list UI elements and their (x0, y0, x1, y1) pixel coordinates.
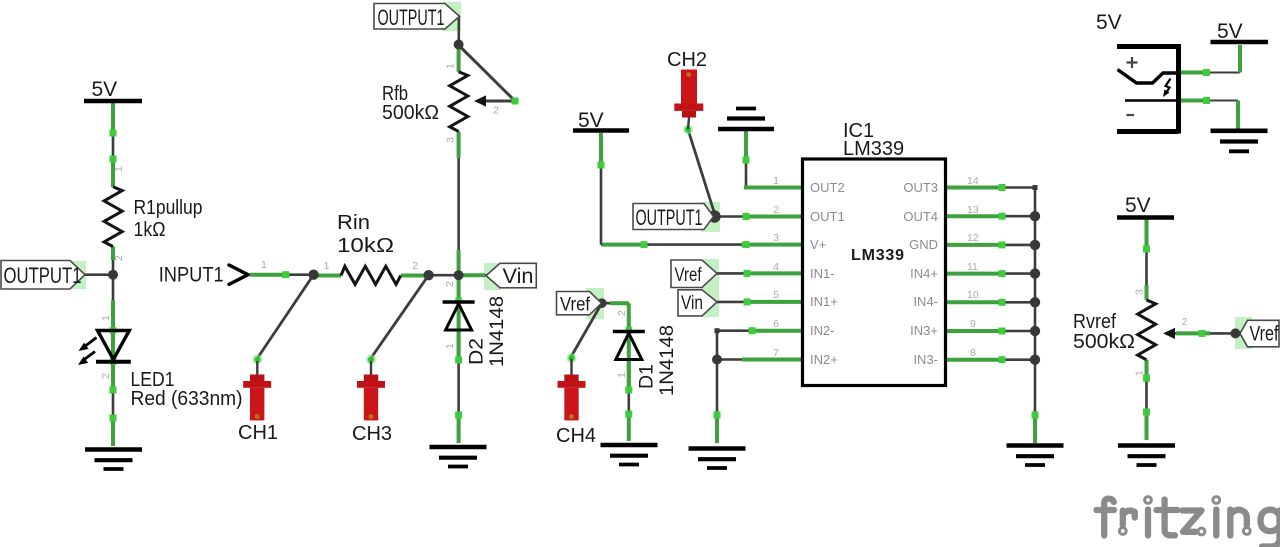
svg-text:OUT4: OUT4 (903, 209, 938, 224)
svg-text:1: 1 (261, 259, 267, 271)
svg-text:CH1: CH1 (238, 422, 278, 444)
svg-text:1kΩ: 1kΩ (134, 219, 166, 241)
svg-text:IN2+: IN2+ (810, 352, 838, 367)
svg-text:13: 13 (967, 204, 979, 216)
svg-text:1: 1 (1134, 370, 1146, 376)
svg-text:Rvref: Rvref (1073, 311, 1116, 333)
svg-text:D2: D2 (467, 338, 488, 365)
svg-text:1: 1 (113, 166, 125, 172)
svg-text:1: 1 (324, 260, 330, 272)
svg-text:GND: GND (909, 237, 938, 252)
svg-text:2: 2 (444, 281, 456, 287)
svg-text:8: 8 (970, 347, 976, 359)
svg-text:IN3-: IN3- (913, 352, 938, 367)
svg-text:IN3+: IN3+ (910, 323, 938, 338)
svg-text:Vin: Vin (681, 293, 703, 314)
svg-text:R1pullup: R1pullup (134, 197, 203, 219)
svg-text:5: 5 (773, 289, 779, 301)
svg-text:OUTPUT1: OUTPUT1 (378, 5, 445, 30)
svg-text:OUTPUT1: OUTPUT1 (636, 205, 703, 230)
svg-text:5V: 5V (1125, 194, 1151, 217)
svg-text:2: 2 (493, 105, 499, 117)
svg-text:2: 2 (616, 310, 628, 316)
svg-text:IN4-: IN4- (913, 294, 938, 309)
svg-text:D1: D1 (637, 364, 658, 389)
svg-text:CH4: CH4 (556, 425, 596, 447)
svg-text:1: 1 (773, 175, 779, 187)
svg-text:1N4148: 1N4148 (487, 296, 508, 367)
svg-text:5V: 5V (578, 109, 604, 132)
svg-text:7: 7 (773, 347, 779, 359)
svg-text:5V: 5V (1096, 11, 1122, 34)
svg-text:1: 1 (616, 372, 628, 378)
svg-text:LM339: LM339 (851, 247, 904, 264)
svg-text:9: 9 (970, 318, 976, 330)
svg-text:1: 1 (444, 343, 456, 349)
svg-text:2: 2 (100, 373, 112, 379)
svg-text:Vref: Vref (1250, 323, 1279, 346)
svg-text:10kΩ: 10kΩ (337, 235, 394, 257)
svg-text:4: 4 (773, 261, 779, 273)
svg-text:12: 12 (967, 232, 979, 244)
svg-text:500kΩ: 500kΩ (382, 102, 439, 124)
svg-text:10: 10 (967, 289, 979, 301)
svg-text:3: 3 (445, 137, 457, 143)
svg-text:1: 1 (445, 63, 457, 69)
svg-text:INPUT1: INPUT1 (159, 264, 224, 287)
svg-text:2: 2 (412, 260, 418, 272)
svg-text:3: 3 (773, 232, 779, 244)
svg-text:OUT3: OUT3 (903, 180, 938, 195)
svg-text:V+: V+ (810, 237, 826, 252)
svg-text:5V: 5V (1217, 20, 1243, 43)
svg-text:LM339: LM339 (843, 138, 904, 160)
svg-text:5V: 5V (92, 78, 118, 101)
svg-text:11: 11 (967, 261, 978, 273)
svg-text:Vref: Vref (560, 295, 591, 316)
svg-text:IN1+: IN1+ (810, 294, 838, 309)
svg-text:Rin: Rin (337, 212, 370, 234)
svg-text:3: 3 (1134, 289, 1146, 295)
svg-text:OUT1: OUT1 (810, 209, 845, 224)
svg-text:2: 2 (113, 255, 125, 261)
svg-text:IN1-: IN1- (810, 266, 835, 281)
svg-text:Red (633nm): Red (633nm) (131, 388, 243, 410)
svg-text:14: 14 (967, 175, 979, 187)
svg-text:1N4148: 1N4148 (657, 325, 678, 396)
svg-text:2: 2 (1182, 316, 1188, 328)
svg-text:IN4+: IN4+ (910, 266, 938, 281)
svg-text:CH3: CH3 (352, 423, 392, 445)
svg-text:IN2-: IN2- (810, 323, 835, 338)
svg-text:Vin: Vin (503, 265, 534, 288)
svg-text:6: 6 (773, 318, 779, 330)
svg-text:OUTPUT1: OUTPUT1 (4, 263, 82, 288)
svg-text:OUT2: OUT2 (810, 180, 845, 195)
svg-text:500kΩ: 500kΩ (1073, 331, 1135, 353)
svg-text:2: 2 (773, 204, 779, 216)
svg-text:CH2: CH2 (667, 49, 707, 71)
svg-text:1: 1 (100, 315, 112, 321)
svg-text:Vref: Vref (675, 265, 703, 286)
